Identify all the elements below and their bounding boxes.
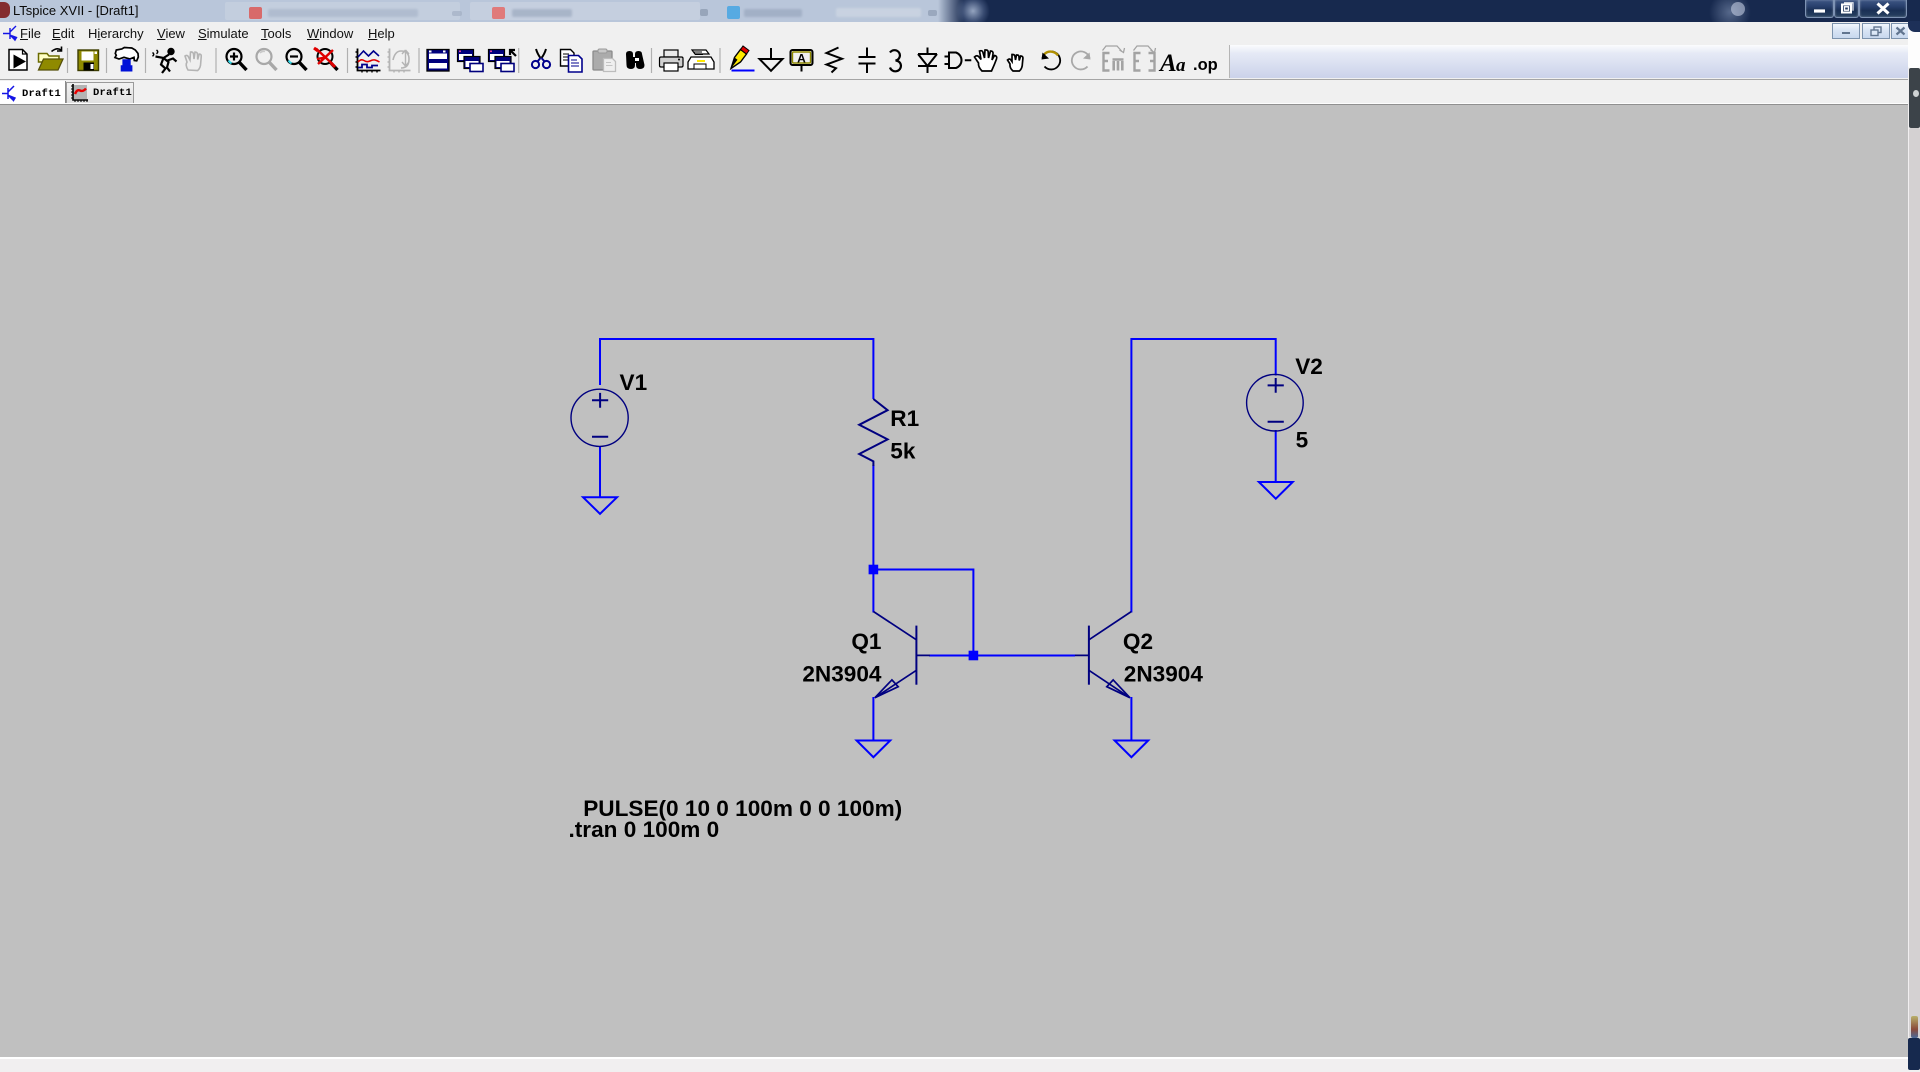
svg-text:2N3904: 2N3904 <box>802 661 882 686</box>
svg-text:.op: .op <box>1193 56 1218 74</box>
svg-text:V1: V1 <box>620 370 648 395</box>
svg-text:5k: 5k <box>890 439 916 464</box>
svg-text:A: A <box>797 52 806 66</box>
svg-text:5: 5 <box>1296 428 1309 453</box>
svg-text:R1: R1 <box>890 406 919 431</box>
svg-text:V2: V2 <box>1295 354 1323 379</box>
svg-text:a: a <box>1176 55 1186 76</box>
svg-text:.tran 0 100m 0: .tran 0 100m 0 <box>569 817 720 842</box>
svg-text:2N3904: 2N3904 <box>1124 661 1204 686</box>
svg-text:A: A <box>1158 50 1177 77</box>
svg-text:Q2: Q2 <box>1123 629 1153 654</box>
svg-text:Q1: Q1 <box>851 629 881 654</box>
